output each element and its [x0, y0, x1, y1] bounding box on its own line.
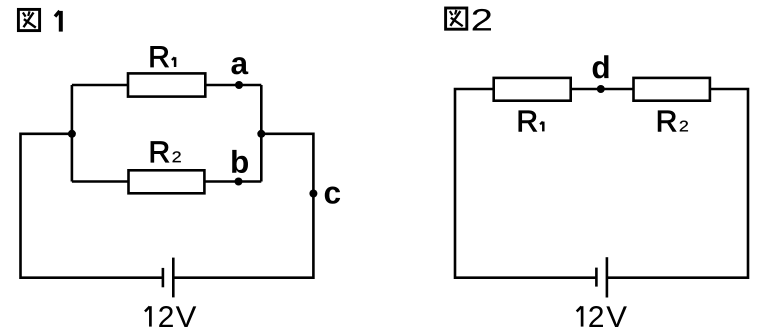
- battery B1 short plate (fig1): [162, 268, 165, 287]
- wire: fig1 outer left (junction to bottom-left corner to battery): [21, 134, 163, 278]
- node b label: [232, 150, 248, 173]
- node d label: [593, 55, 609, 78]
- node a dot: [235, 81, 243, 89]
- resistor R2 (fig1): [129, 170, 205, 193]
- wire: fig1 inner right vertical (between branches): [260, 85, 263, 182]
- resistor R1 (fig1): [128, 73, 205, 96]
- wire: fig2 right side (battery to bottom-right corner up to R2 lead): [607, 89, 748, 278]
- wire: fig2 left side (R1 lead to left edge down to battery): [455, 89, 596, 278]
- wire: fig1 bottom branch right lead: [204, 180, 261, 183]
- resistor R2 label (fig1): [151, 142, 169, 163]
- resistor R1 label (fig2): [519, 111, 543, 132]
- wire: fig1 inner left vertical (between branches): [71, 85, 74, 182]
- node b dot: [235, 178, 243, 186]
- battery B2 short plate (fig2): [595, 268, 598, 287]
- wire: fig1 outer right (battery to bottom-right corner up to right junction): [173, 134, 313, 278]
- resistor R2 label (fig2): [658, 111, 676, 132]
- node c dot on right vertical wire: [309, 190, 317, 198]
- wire: fig1 bottom branch left lead: [72, 180, 129, 183]
- node a label: [231, 57, 248, 74]
- node d dot: [597, 85, 605, 93]
- resistor R1 (fig2): [494, 78, 571, 101]
- junction dot right (fig1): [257, 130, 265, 138]
- battery B2 long plate (fig2): [606, 257, 609, 297]
- figure label 図1: [18, 9, 60, 31]
- battery B1 value label 12V (fig1): [145, 306, 196, 327]
- resistor R1 label (fig1): [151, 46, 175, 67]
- junction dot left (fig1): [68, 130, 76, 138]
- figure label 図2: [446, 8, 491, 31]
- wire: fig1 top branch left lead: [72, 84, 128, 87]
- battery B1 long plate (fig1): [172, 258, 175, 298]
- battery B2 value label 12V (fig2): [577, 306, 627, 327]
- node c label: [325, 187, 340, 204]
- wire: fig2 middle lead between R1 and R2: [571, 88, 634, 91]
- wire: fig1 top branch right lead: [205, 84, 261, 87]
- resistor R2 (fig2): [634, 78, 710, 101]
